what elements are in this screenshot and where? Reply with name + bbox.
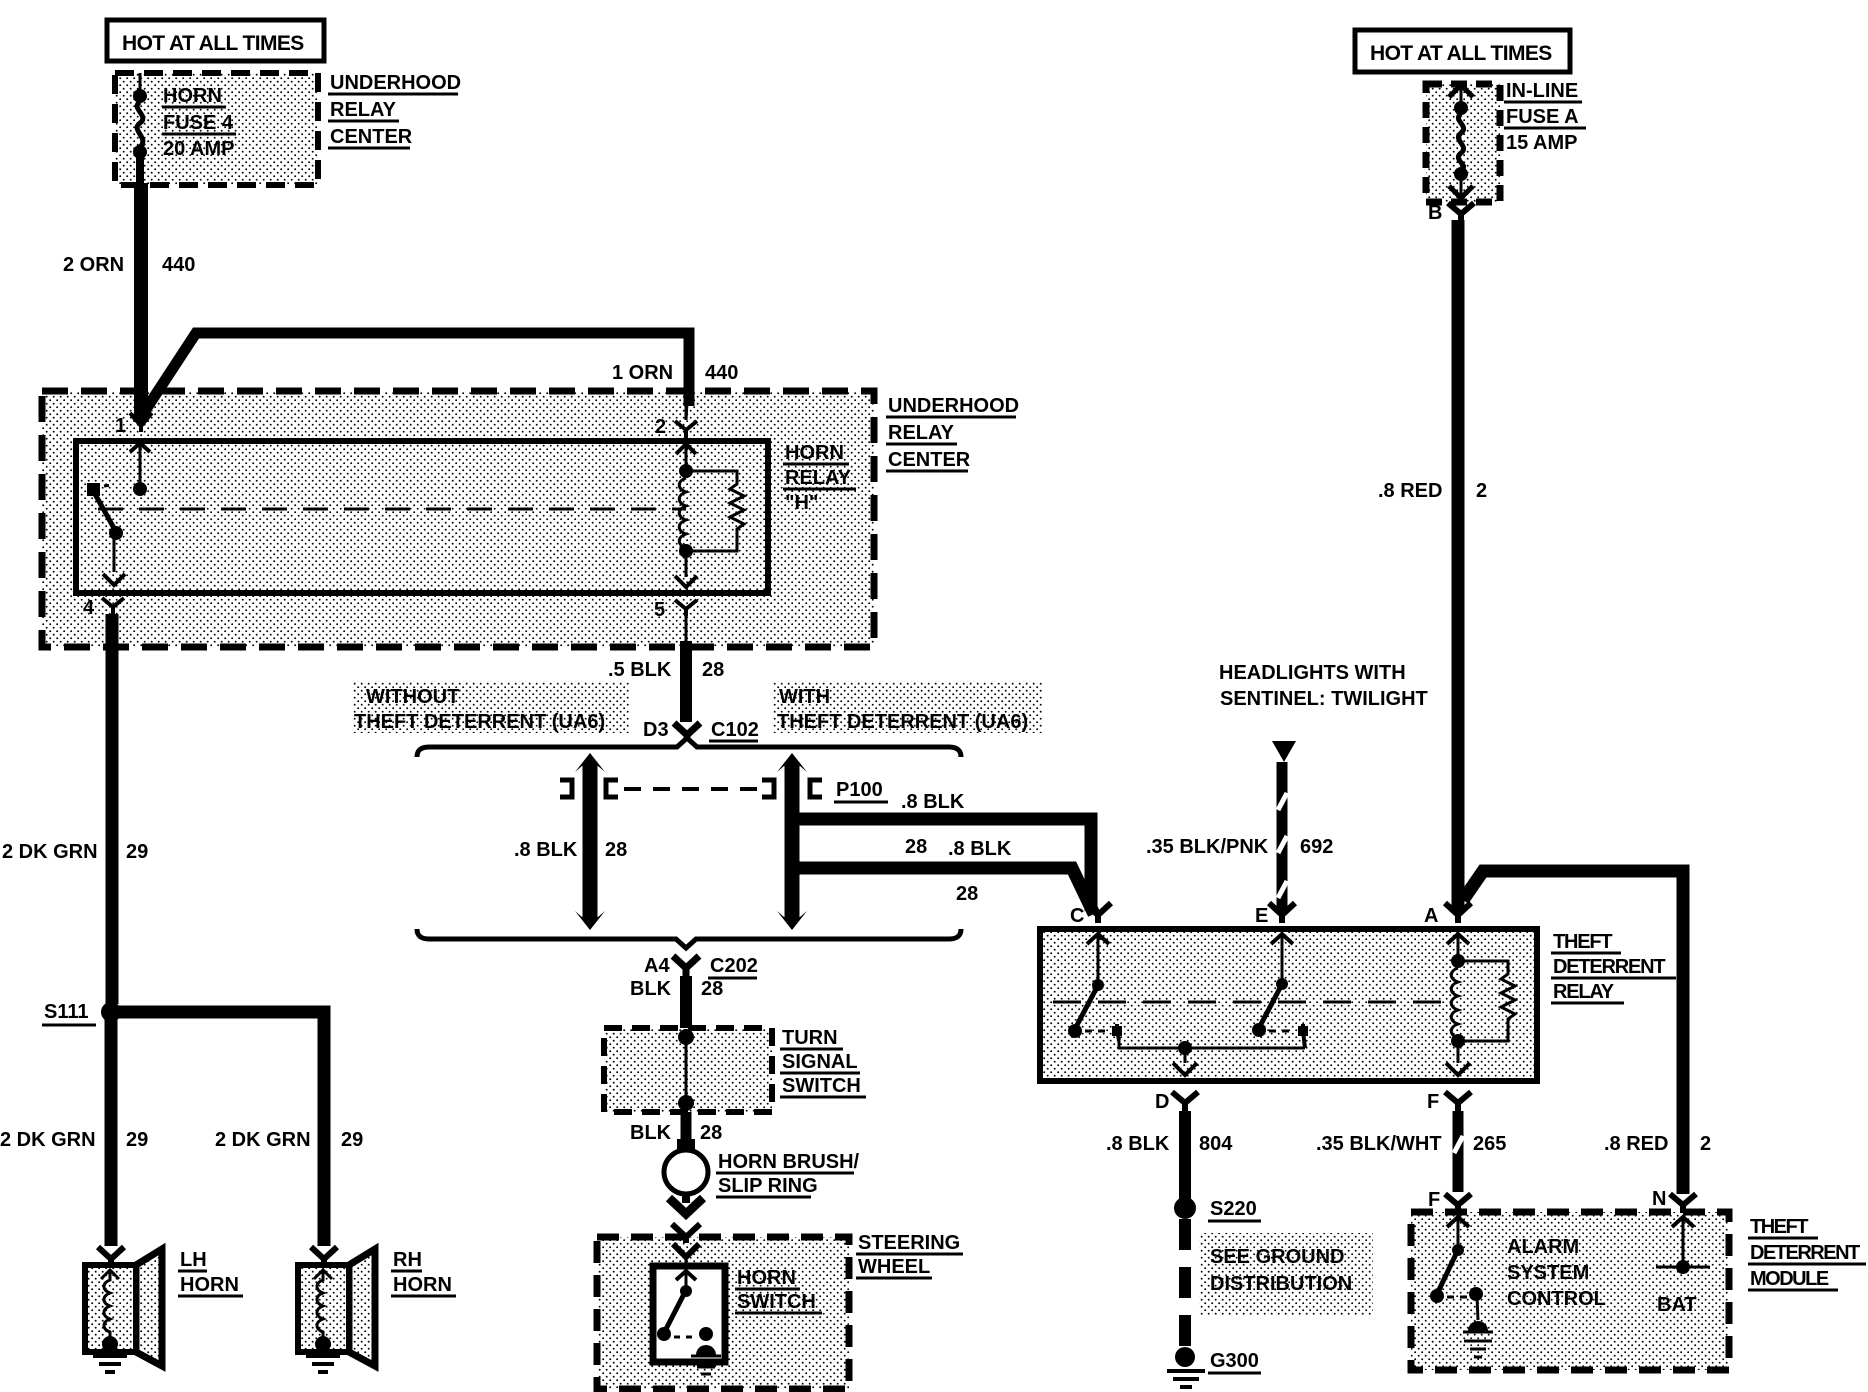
svg-text:C102: C102 <box>711 719 759 741</box>
wire 2 DK GRN 29 (pin 4 to S111) <box>2 614 148 1004</box>
power tag HOT AT ALL TIMES (left) <box>107 20 324 61</box>
svg-text:N: N <box>1652 1188 1666 1210</box>
svg-text:HORN BRUSH/: HORN BRUSH/ <box>718 1151 860 1173</box>
svg-text:BLK: BLK <box>630 1122 672 1144</box>
svg-text:440: 440 <box>705 362 738 384</box>
wire .5 BLK 28 (pin 5 to C102) <box>608 641 724 722</box>
relay coil A-F with resistor <box>1446 934 1515 1075</box>
svg-text:HEADLIGHTS WITH: HEADLIGHTS WITH <box>1219 662 1406 684</box>
svg-text:IN-LINE: IN-LINE <box>1506 80 1578 102</box>
svg-text:B: B <box>1428 202 1442 224</box>
connector pair below slip ring <box>669 1194 703 1270</box>
svg-text:STEERING: STEERING <box>858 1232 960 1254</box>
label RH HORN <box>391 1249 456 1296</box>
svg-text:.5 BLK: .5 BLK <box>608 659 672 681</box>
fuse HORN FUSE 4 20 AMP (dashed box) <box>115 73 318 185</box>
svg-text:.8 BLK: .8 BLK <box>901 791 965 813</box>
svg-text:P100: P100 <box>836 779 883 801</box>
pin N (female fork) <box>1652 1188 1696 1213</box>
svg-text:HORN: HORN <box>393 1274 452 1296</box>
svg-text:20 AMP: 20 AMP <box>163 138 235 160</box>
label THEFT DETERRENT RELAY <box>1551 931 1676 1003</box>
svg-text:1: 1 <box>115 415 126 437</box>
svg-text:A: A <box>1424 905 1438 927</box>
pin F (female fork) <box>1427 1091 1471 1113</box>
svg-text:5: 5 <box>654 599 665 621</box>
wire .8 RED 2 (fuse A to relay pin A) <box>1378 220 1487 912</box>
svg-text:804: 804 <box>1199 1133 1233 1155</box>
svg-text:692: 692 <box>1300 836 1333 858</box>
pin 2 (female fork) <box>655 396 697 439</box>
horn switch box <box>653 1266 725 1374</box>
svg-text:CENTER: CENTER <box>888 449 971 471</box>
svg-text:S220: S220 <box>1210 1198 1257 1220</box>
svg-text:SLIP RING: SLIP RING <box>718 1175 818 1197</box>
connector C102 pin D3 (fork at wire end) <box>643 719 759 741</box>
svg-text:THEFT: THEFT <box>1553 931 1612 953</box>
svg-text:.35 BLK/PNK: .35 BLK/PNK <box>1146 836 1269 858</box>
wire 2 ORN 440 (fuse to relay pin 1) <box>63 183 195 418</box>
svg-text:.8 BLK: .8 BLK <box>1106 1133 1170 1155</box>
pin F of alarm module (female fork) <box>1428 1189 1471 1213</box>
svg-text:SWITCH: SWITCH <box>737 1291 816 1313</box>
svg-text:WITH: WITH <box>779 686 830 708</box>
RH horn <box>298 1247 375 1372</box>
relay coil with resistor (pins 2-5) <box>675 444 744 587</box>
fuse IN-LINE FUSE A 15 AMP (dashed box) <box>1426 84 1500 202</box>
label UNDERHOOD RELAY CENTER (right) <box>886 395 1019 471</box>
svg-text:HOT AT ALL TIMES: HOT AT ALL TIMES <box>1370 42 1552 65</box>
svg-text:29: 29 <box>126 841 148 863</box>
turn signal switch (dashed box) <box>604 1028 772 1112</box>
svg-text:MODULE: MODULE <box>1750 1268 1829 1290</box>
svg-text:ALARM: ALARM <box>1507 1236 1579 1258</box>
svg-text:29: 29 <box>341 1129 363 1151</box>
brace bottom (connector C202 span) <box>417 929 961 948</box>
svg-text:E: E <box>1255 905 1268 927</box>
svg-text:HORN: HORN <box>163 85 222 107</box>
label STEERING WHEEL <box>856 1232 963 1278</box>
svg-text:RELAY: RELAY <box>1553 981 1615 1003</box>
pin 4 (female fork) <box>83 597 124 619</box>
svg-text:HOT AT ALL TIMES: HOT AT ALL TIMES <box>122 32 304 55</box>
wire .8 BLK 28 (lower branch to relay pin C) <box>788 838 1094 914</box>
svg-text:2: 2 <box>1700 1133 1711 1155</box>
connector C202 pin A4 (fork) <box>644 955 758 978</box>
svg-text:FUSE A: FUSE A <box>1506 106 1579 128</box>
svg-text:.8 BLK: .8 BLK <box>948 838 1012 860</box>
svg-text:15 AMP: 15 AMP <box>1506 132 1578 154</box>
svg-text:UNDERHOOD: UNDERHOOD <box>330 72 461 94</box>
svg-text:BAT: BAT <box>1657 1294 1697 1316</box>
svg-text:265: 265 <box>1473 1133 1506 1155</box>
svg-text:F: F <box>1427 1091 1439 1113</box>
svg-text:WITHOUT: WITHOUT <box>366 686 459 708</box>
svg-text:SWITCH: SWITCH <box>782 1075 861 1097</box>
battery BAT inside theft deterrent module <box>1656 1217 1710 1316</box>
splice S111 <box>42 1001 121 1025</box>
splice S220 <box>1174 1197 1261 1221</box>
option label WITH THEFT DETERRENT (UA6) <box>772 681 1042 733</box>
wire (right branch, with theft deterrent) <box>777 753 807 930</box>
svg-text:DISTRIBUTION: DISTRIBUTION <box>1210 1273 1352 1295</box>
wire 2 DK GRN 29 (S111 to RH horn) <box>118 1012 363 1246</box>
svg-text:UNDERHOOD: UNDERHOOD <box>888 395 1019 417</box>
option label WITHOUT THEFT DETERRENT (UA6) <box>352 681 630 733</box>
svg-text:"H": "H" <box>785 492 818 514</box>
svg-text:SEE GROUND: SEE GROUND <box>1210 1246 1344 1268</box>
power tag HOT AT ALL TIMES (right) <box>1355 30 1570 72</box>
svg-text:HORN: HORN <box>785 442 844 464</box>
svg-text:LH: LH <box>180 1249 207 1271</box>
pin C (female fork) <box>1070 903 1111 927</box>
wire .35 BLK/WHT 265 (pin F to alarm system control) <box>1316 1111 1506 1192</box>
label HORN SWITCH <box>735 1267 822 1313</box>
horn relay box U-H <box>76 441 768 593</box>
svg-text:HORN: HORN <box>737 1267 796 1289</box>
svg-text:.35 BLK/WHT: .35 BLK/WHT <box>1316 1133 1442 1155</box>
svg-text:G300: G300 <box>1210 1350 1259 1372</box>
svg-text:29: 29 <box>126 1129 148 1151</box>
wire BLK 28 (turn signal switch to horn brush) <box>630 1112 722 1150</box>
relay switch C-D <box>1068 934 1305 1075</box>
label TURN SIGNAL SWITCH <box>780 1027 866 1097</box>
svg-text:2 ORN: 2 ORN <box>63 254 124 276</box>
label ALARM SYSTEM CONTROL <box>1507 1236 1606 1310</box>
pin 5 (female fork) <box>654 599 697 641</box>
svg-text:2 DK GRN: 2 DK GRN <box>2 841 98 863</box>
svg-text:CONTROL: CONTROL <box>1507 1288 1606 1310</box>
label IN-LINE FUSE A 15 AMP <box>1504 80 1586 154</box>
in-line connector on left wire <box>560 780 618 797</box>
wire (S220 to G300, dashed) <box>1179 1219 1191 1350</box>
wire .8 BLK 804 (pin D to S220) <box>1106 1111 1233 1199</box>
pin D (female fork) <box>1155 1091 1198 1113</box>
brace top (connector C102 span) <box>417 738 961 757</box>
label SEE GROUND DISTRIBUTION <box>1199 1233 1373 1316</box>
label LH HORN <box>178 1249 243 1296</box>
svg-text:D: D <box>1155 1091 1169 1113</box>
svg-text:28: 28 <box>702 659 724 681</box>
svg-text:C202: C202 <box>710 955 758 977</box>
svg-text:HORN: HORN <box>180 1274 239 1296</box>
svg-text:2: 2 <box>655 416 666 438</box>
relay internal dashed position line <box>1053 1001 1445 1004</box>
svg-text:28: 28 <box>700 1122 722 1144</box>
svg-text:BLK: BLK <box>630 978 672 1000</box>
svg-text:THEFT: THEFT <box>1750 1216 1808 1238</box>
underhood relay center dashed box <box>42 391 874 647</box>
svg-text:DETERRENT: DETERRENT <box>1553 956 1665 978</box>
pin 1 (female fork) <box>115 413 152 437</box>
pin B (female fork) <box>1428 202 1474 224</box>
wire .8 BLK 28 (upper branch to relay pin C) <box>788 791 1091 911</box>
wire BLK 28 (C202 to turn signal switch) <box>630 976 723 1036</box>
svg-text:.8 RED: .8 RED <box>1604 1133 1668 1155</box>
label UNDERHOOD RELAY CENTER (at fuse) <box>328 72 461 148</box>
svg-text:28: 28 <box>905 836 927 858</box>
horn brush / slip ring <box>664 1139 860 1197</box>
svg-text:S111: S111 <box>44 1001 89 1023</box>
svg-text:DETERRENT: DETERRENT <box>1750 1242 1860 1264</box>
svg-text:A4: A4 <box>644 955 670 977</box>
relay switch E-D <box>1252 934 1308 1048</box>
svg-text:28: 28 <box>605 839 627 861</box>
LH horn <box>85 1247 162 1372</box>
svg-text:CENTER: CENTER <box>330 126 413 148</box>
svg-text:2 DK GRN: 2 DK GRN <box>0 1129 96 1151</box>
svg-text:.8 BLK: .8 BLK <box>514 839 578 861</box>
svg-text:D3: D3 <box>643 719 669 741</box>
svg-text:2: 2 <box>1476 480 1487 502</box>
svg-text:1 ORN: 1 ORN <box>612 362 673 384</box>
theft deterrent relay box <box>1040 929 1537 1081</box>
svg-text:F: F <box>1428 1189 1440 1211</box>
wire .35 BLK/PNK 692 (sentinel feed to pin E) <box>1146 741 1333 914</box>
relay internal dashed position line <box>98 508 686 511</box>
alarm switch to ground <box>1430 1217 1493 1357</box>
svg-text:RELAY: RELAY <box>888 422 955 444</box>
label THEFT DETERRENT MODULE <box>1748 1216 1866 1290</box>
svg-text:RELAY: RELAY <box>330 99 397 121</box>
ground G300 <box>1167 1347 1261 1387</box>
svg-text:THEFT DETERRENT (UA6): THEFT DETERRENT (UA6) <box>777 711 1028 733</box>
svg-text:28: 28 <box>956 883 978 905</box>
alarm system control dashed box <box>1411 1212 1729 1370</box>
svg-text:THEFT DETERRENT (UA6): THEFT DETERRENT (UA6) <box>354 711 605 733</box>
svg-text:.8 RED: .8 RED <box>1378 480 1442 502</box>
svg-text:SYSTEM: SYSTEM <box>1507 1262 1589 1284</box>
wire 2 DK GRN 29 (S111 to LH horn) <box>0 1012 148 1246</box>
pin A (female fork) <box>1424 903 1471 927</box>
label HEADLIGHTS WITH SENTINEL: TWILIGHT <box>1219 662 1428 710</box>
wire 1 ORN 440 (horizontal feed to pin 2) <box>137 333 738 423</box>
svg-text:440: 440 <box>162 254 195 276</box>
svg-text:C: C <box>1070 905 1084 927</box>
wire .8 BLK 28 (left branch, without theft deterrent) <box>514 753 627 930</box>
svg-text:SIGNAL: SIGNAL <box>782 1051 858 1073</box>
svg-text:WHEEL: WHEEL <box>858 1256 930 1278</box>
svg-text:SENTINEL: TWILIGHT: SENTINEL: TWILIGHT <box>1220 688 1428 710</box>
svg-text:28: 28 <box>701 978 723 1000</box>
wire .8 RED 2 (pin A branch to theft deterrent module pin N) <box>1463 871 1711 1194</box>
steering wheel dashed box <box>597 1237 849 1389</box>
svg-text:2 DK GRN: 2 DK GRN <box>215 1129 311 1151</box>
svg-text:RELAY: RELAY <box>785 467 852 489</box>
label HORN RELAY "H" <box>783 442 856 514</box>
svg-text:FUSE 4: FUSE 4 <box>163 112 234 134</box>
pin E (female fork) <box>1255 903 1295 927</box>
svg-text:TURN: TURN <box>782 1027 838 1049</box>
svg-text:RH: RH <box>393 1249 422 1271</box>
connector P100 (dashed link and brackets) <box>624 779 888 802</box>
svg-text:4: 4 <box>83 597 95 619</box>
relay switch (pins 1-4) <box>87 443 150 585</box>
